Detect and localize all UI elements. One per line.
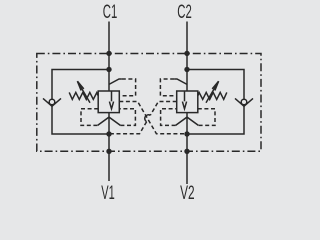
wire V1 line xyxy=(108,151,110,181)
wire C2 line xyxy=(186,22,188,92)
pilot lower loop right (dashed right arm) xyxy=(198,109,215,126)
wire C2-to-V2 line through valve xyxy=(186,113,188,151)
relief valve envelope right xyxy=(177,91,198,113)
relief valve envelope left xyxy=(98,91,119,113)
svg-text:V2: V2 xyxy=(180,182,195,200)
pilot top loop right (solid lead-in) xyxy=(174,79,187,84)
spring left xyxy=(69,92,98,99)
wire V2 line xyxy=(186,151,188,184)
check valve CV2 xyxy=(235,98,253,106)
svg-text:C2: C2 xyxy=(177,1,192,23)
pilot crossover line from right valve to V1 node xyxy=(109,102,177,134)
pilot lower loop right (solid vee tap) xyxy=(176,117,199,125)
junction dot V2 lower branch xyxy=(184,131,189,136)
pilot top loop left (dashed) xyxy=(119,79,135,96)
wire C1-to-V1 line through valve xyxy=(108,113,110,151)
junction dot V2 at boundary xyxy=(184,149,189,154)
relief valve flow arrow right xyxy=(182,91,186,109)
wire check-valve branch bottom left xyxy=(52,106,109,134)
svg-text:C1: C1 xyxy=(103,1,118,23)
crossover bridge arc xyxy=(145,115,151,122)
pilot crossover line from left valve to V2 node xyxy=(119,102,187,134)
junction dot C2 upper branch xyxy=(184,67,189,72)
spring right xyxy=(198,92,227,99)
relief valve flow arrow left xyxy=(109,91,113,109)
pilot top loop left (solid lead-in) xyxy=(109,79,122,84)
junction dot V1 at boundary xyxy=(106,149,111,154)
wire check-valve branch bottom right xyxy=(187,106,244,134)
pilot lower loop left (dashed right arm) xyxy=(119,109,135,126)
check valve CV1 xyxy=(43,98,61,106)
junction dot V1 lower branch xyxy=(106,131,111,136)
wire C1 line xyxy=(108,22,110,92)
wire check-valve branch top left xyxy=(52,70,109,100)
pilot lower loop right (dashed left arm) xyxy=(161,109,177,126)
pilot top loop right (dashed) xyxy=(160,79,176,96)
junction dot C2 at boundary xyxy=(184,51,189,56)
pilot lower loop left (solid vee tap) xyxy=(98,117,121,125)
spring adjustment arrow right xyxy=(206,81,219,103)
junction dot C1 upper branch xyxy=(106,67,111,72)
spring adjustment arrow left xyxy=(77,81,90,103)
junction dot C1 at boundary xyxy=(106,51,111,56)
wire check-valve branch top right xyxy=(187,70,244,100)
svg-text:V1: V1 xyxy=(101,182,115,200)
valve assembly enclosure (dash-dot boundary) xyxy=(37,54,261,152)
pilot lower loop left (dashed left arm) xyxy=(81,109,98,126)
